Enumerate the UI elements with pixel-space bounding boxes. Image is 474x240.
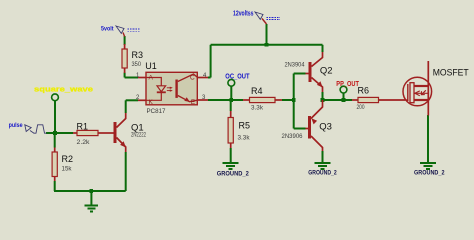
svg-text:MOSFET: MOSFET — [433, 68, 469, 79]
svg-text:Q3: Q3 — [319, 122, 332, 133]
svg-text:15k: 15k — [62, 167, 73, 173]
svg-text:E: E — [191, 99, 196, 106]
svg-text:C: C — [190, 74, 195, 81]
svg-text:200: 200 — [357, 105, 366, 111]
svg-text:PP_OUT: PP_OUT — [336, 81, 359, 88]
svg-text:Q2: Q2 — [320, 66, 333, 77]
svg-text:square_wave: square_wave — [34, 85, 93, 94]
svg-text:5volt: 5volt — [101, 25, 114, 32]
svg-text:GROUND_2: GROUND_2 — [414, 170, 445, 177]
svg-text:12voltss: 12voltss — [233, 10, 254, 17]
svg-text:A: A — [149, 74, 154, 81]
svg-text:3.3k: 3.3k — [238, 136, 251, 142]
svg-text:GROUND_2: GROUND_2 — [217, 171, 249, 178]
svg-text:R4: R4 — [251, 86, 263, 96]
svg-text:R3: R3 — [132, 50, 144, 60]
svg-text:2N2222: 2N2222 — [131, 133, 146, 139]
svg-text:GROUND_2: GROUND_2 — [308, 170, 337, 177]
svg-text:2N3906: 2N3906 — [282, 134, 304, 140]
svg-text:pulse: pulse — [9, 122, 23, 129]
svg-text:3.3k: 3.3k — [251, 106, 264, 112]
svg-text:2.2k: 2.2k — [77, 140, 91, 146]
svg-text:R2: R2 — [62, 154, 74, 164]
svg-text:OC_OUT: OC_OUT — [225, 74, 250, 81]
svg-text:PC817: PC817 — [147, 108, 166, 115]
svg-text:350: 350 — [132, 62, 142, 68]
svg-text:R5: R5 — [239, 121, 251, 131]
svg-text:R6: R6 — [358, 86, 370, 96]
svg-text:U1: U1 — [145, 61, 157, 71]
svg-text:2N3904: 2N3904 — [285, 63, 306, 69]
svg-text:R1: R1 — [77, 122, 89, 132]
svg-text:K: K — [149, 99, 154, 106]
